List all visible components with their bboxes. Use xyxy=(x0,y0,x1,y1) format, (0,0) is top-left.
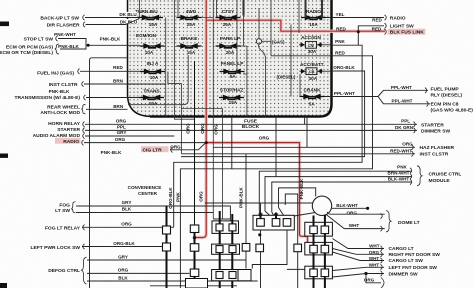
fuse CRANK 5A xyxy=(300,94,325,100)
fuse ECM/IGN 10A xyxy=(140,43,165,49)
wire block drop to loop xyxy=(231,117,233,169)
wire defog GRY xyxy=(87,259,246,261)
scan mark top-left xyxy=(0,22,9,27)
wire haz flasher ORG xyxy=(213,146,415,148)
right device labels xyxy=(389,16,474,278)
wire cargo lt WHT xyxy=(332,239,384,249)
wire RED down to convenience loop xyxy=(180,56,372,288)
junction blk fus link xyxy=(357,30,360,33)
wire dome sw WHT diagonal xyxy=(327,215,385,229)
brace DOME LT xyxy=(386,211,391,233)
wire: red branch to fusible link xyxy=(206,20,385,31)
junction radio/cig xyxy=(205,141,208,144)
fuse PARK LP 20A xyxy=(216,43,241,49)
internal vertical wires of fuse block xyxy=(128,0,322,219)
wire transmission PNK-BLK xyxy=(86,97,139,99)
wire fog lt relay ORG xyxy=(82,226,174,228)
label knockouts xyxy=(119,12,138,17)
wire 4wd to ctsy column xyxy=(202,0,223,219)
dome lamp circle xyxy=(312,196,331,215)
fuse block body xyxy=(128,0,332,117)
wire defog ORG xyxy=(87,272,189,274)
fuse TURN B/U 15A xyxy=(138,15,163,21)
highlight behind BLK FUS LINK label xyxy=(388,29,426,35)
fuse 4WD 25A xyxy=(177,15,202,21)
wire radio fuse feeds xyxy=(306,0,323,18)
wire inner corner xyxy=(128,55,188,105)
circuit breaker ACC/BATT CB 30A xyxy=(300,68,324,75)
connector (GAS) tag xyxy=(256,8,296,117)
wire right fnt door ORG xyxy=(332,249,384,255)
connector box bottom-left of cluster xyxy=(238,270,251,281)
wire square1 drop with junction xyxy=(260,230,262,288)
wire cig ltr ORG xyxy=(170,143,205,149)
wire ecm diesel branch down page xyxy=(90,58,128,288)
left wire labels xyxy=(49,12,270,280)
wire inj a output xyxy=(168,72,223,154)
wire dome feed nested xyxy=(279,188,316,218)
left-side wires xyxy=(58,18,417,288)
wire ctsy right feed stub xyxy=(243,0,245,16)
wire: red radio/cig ltr branch xyxy=(206,143,307,247)
pink highlight halo of red circuit xyxy=(196,0,386,247)
fuses row 1 xyxy=(135,9,326,106)
junction stop/ecm xyxy=(87,44,90,47)
wire column down left of 4wd xyxy=(174,0,194,119)
wire dome connector feed xyxy=(285,194,297,288)
wire cruise BLK-WHT xyxy=(272,182,412,218)
wire cruise BRN-WHT xyxy=(265,177,412,218)
connector column B x=194.5 xyxy=(186,61,208,288)
wire crank PPL-WHT with fork xyxy=(325,90,431,104)
brace FOG LT SW xyxy=(71,202,75,213)
wire square3 drop xyxy=(252,230,304,269)
highlight behind RADIO label xyxy=(55,138,81,144)
wire block bottom drop to starter wire xyxy=(304,117,306,125)
fuse STOP/HAZ 15A xyxy=(219,95,244,101)
wire dimmer ORG drop xyxy=(366,274,381,283)
fuse block label xyxy=(242,118,260,130)
left device labels xyxy=(0,15,81,274)
wire inst clstr RED-WHT xyxy=(181,153,415,155)
wire back-up lt sw DK BLU xyxy=(85,17,138,19)
wire red feed column xyxy=(270,0,272,56)
wire left pwr lock ORG-BLK xyxy=(82,246,167,248)
wire dome to connector diagonal xyxy=(288,213,315,217)
wire fuel inj RED xyxy=(80,70,140,72)
right label hooks xyxy=(381,15,429,288)
dome switch connector stack xyxy=(305,215,333,288)
fuse RADIO 10A xyxy=(301,15,326,21)
wire ctsy column down xyxy=(236,0,238,74)
wire radio YEL xyxy=(326,17,384,19)
wire left fnt door WHT xyxy=(332,267,384,270)
circuit breaker ACC/IGN CB 30A xyxy=(299,41,323,48)
fuse INJ A 10A xyxy=(140,69,165,75)
wire defog BLK xyxy=(87,280,258,282)
wire audio alarm GRY xyxy=(85,135,174,137)
wire bottom bus xyxy=(150,285,237,287)
connector pair C/D x=219.7,232.3 xyxy=(212,211,240,288)
right wire labels xyxy=(333,12,413,283)
wire dimmer sw WHT xyxy=(332,274,384,278)
brace ECM label xyxy=(55,44,59,54)
wire stop/haz drop to haz flasher xyxy=(306,117,308,148)
wire: red fusible link circuit (top) xyxy=(196,0,207,238)
wire cruise PNK xyxy=(259,171,412,217)
wire fog lt sw GRY xyxy=(76,206,230,221)
right-side wires xyxy=(174,18,430,288)
fuse CTSY 25A xyxy=(216,15,241,21)
wire dome left feed ORG xyxy=(205,202,313,204)
highlight behind CIG LTR label xyxy=(141,146,169,152)
vertical wire labels xyxy=(168,123,304,209)
wire dir flasher DK BLU xyxy=(86,19,140,25)
connector column A x=166.5 xyxy=(163,206,171,288)
brace DEFOG CTRL xyxy=(82,257,87,284)
wire connector row link xyxy=(213,218,230,220)
connector three-terminal box xyxy=(253,213,294,231)
wire horn relay / starter ORG-PPL xyxy=(85,123,417,125)
wire row1 top stubs xyxy=(140,0,217,18)
label convenience center xyxy=(128,185,162,196)
wire light sw RED xyxy=(358,26,384,45)
wire dome BLK-WHT xyxy=(332,207,368,209)
wire square1 stub xyxy=(260,203,262,219)
wire stop lt sw PNK-WHT xyxy=(58,39,86,46)
wire radio ORG xyxy=(84,142,206,144)
brace REAR WHEEL label xyxy=(81,104,85,114)
wire brake/park column xyxy=(290,25,292,97)
brace CRUISE CTRL MODULE xyxy=(417,166,422,186)
fuse BRAKE 15A xyxy=(177,43,202,49)
wire acc/ign PNK down to convenience loop xyxy=(174,45,362,228)
fuse PANEL LP 5A xyxy=(220,69,245,75)
wire turn b/u output down xyxy=(165,18,167,117)
left label hooks xyxy=(56,15,173,249)
fuse TRANS 10A xyxy=(139,95,164,101)
wire dome ORG xyxy=(327,212,385,214)
wire cargo lt sw WHT xyxy=(332,252,384,261)
wire crank feed xyxy=(299,74,301,97)
wire rear wheel BRN xyxy=(86,108,128,110)
wire starter / dimmer PPL xyxy=(85,129,417,131)
wire fog lt sw BLK xyxy=(76,212,213,214)
wire ecm PNK-BLK xyxy=(60,45,140,49)
terminal square on pnk-blk column xyxy=(242,244,250,252)
scan mark middle-left xyxy=(0,154,8,158)
wire pnk-blk column xyxy=(245,154,247,269)
wire acc/batt ORG-BLK loop xyxy=(181,71,365,157)
wire panel lp right xyxy=(241,46,247,117)
wire inst clstr BRN xyxy=(84,83,166,85)
scan mark bottom-left xyxy=(0,283,7,288)
lower-half wires xyxy=(76,117,385,288)
wire acc/ign feed xyxy=(298,0,300,33)
wire block drop to brn-wht xyxy=(275,117,277,177)
